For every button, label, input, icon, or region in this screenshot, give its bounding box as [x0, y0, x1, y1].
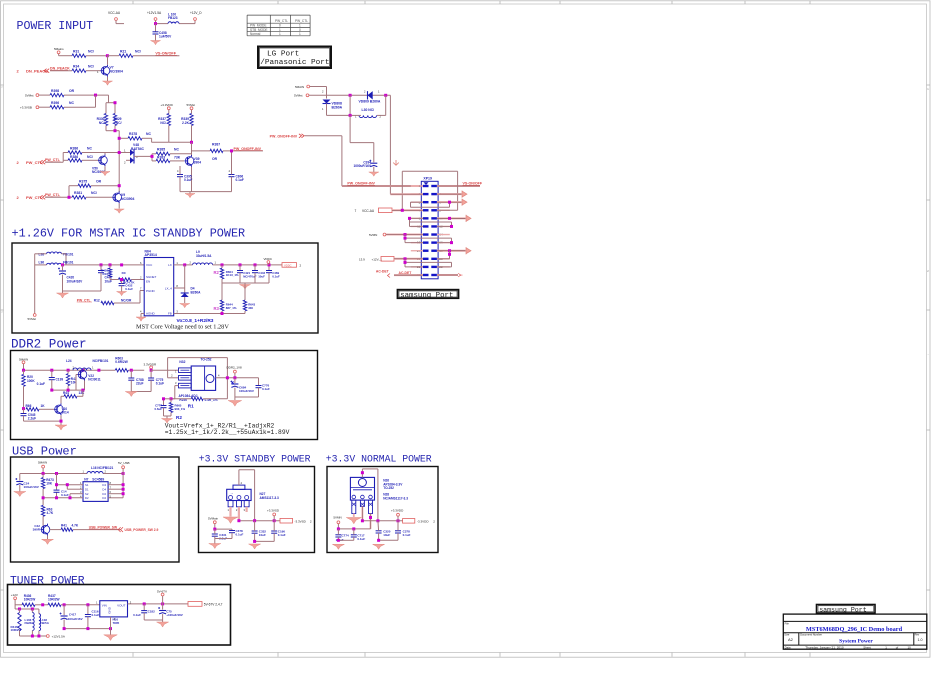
wire N26 mid leg down — [361, 506, 363, 520]
svg-text:10uF: 10uF — [259, 533, 266, 537]
junction R386 bus — [118, 151, 121, 154]
junction pin9 stub — [408, 217, 411, 220]
wire FB node — [174, 313, 245, 315]
junction V10 emitter — [60, 420, 63, 423]
svg-text:NC/AMS1117-3.3: NC/AMS1117-3.3 — [383, 496, 408, 500]
resistor R20 100K (vertical) — [23, 370, 25, 374]
junction +12V rail — [154, 22, 157, 25]
svg-text:0.1uF: 0.1uF — [357, 537, 365, 541]
svg-text:PW_CTL: PW_CTL — [77, 298, 91, 302]
junction pair bottom — [114, 129, 117, 132]
svg-text:DN_PEACK: DN_PEACK — [50, 67, 70, 71]
capacitor C775 0.1uF — [150, 370, 152, 378]
svg-text:R31: R31 — [73, 49, 79, 53]
box USB section — [11, 457, 180, 562]
svg-text:R10: R10 — [102, 272, 108, 276]
svg-text:FB: FB — [168, 312, 172, 316]
transistor V42 390R — [41, 525, 50, 534]
samsung Port box (connector) — [398, 290, 459, 299]
svg-text:Normal: Normal — [250, 32, 261, 36]
svg-text:AC-DET: AC-DET — [376, 269, 390, 273]
svg-text:LX: LX — [168, 263, 172, 267]
diode VD809 B260A — [368, 91, 373, 99]
resistor R473 10K (vertical) — [42, 474, 44, 478]
svg-text:Size: Size — [784, 633, 790, 637]
wire V10 collector to R44 — [60, 396, 62, 403]
svg-text:2.2K: 2.2K — [182, 121, 190, 125]
ground of C684 — [228, 401, 242, 407]
svg-text:R34: R34 — [73, 64, 79, 68]
ground of V9 — [114, 209, 124, 213]
capacitor C24 100uF/16V — [19, 474, 21, 481]
svg-text:5V-6TV: 5V-6TV — [157, 589, 167, 593]
wire stby output rail — [239, 520, 280, 522]
svg-text:→: → — [230, 491, 234, 495]
svg-text:MST Core Voltage need to set 1: MST Core Voltage need to set 1.28V — [136, 324, 229, 331]
junction R20/R66 — [22, 407, 25, 410]
svg-text:Sheet: Sheet — [863, 645, 871, 649]
capacitor C378 0.1uF (stby) — [229, 530, 235, 532]
svg-text:B260A: B260A — [191, 290, 202, 294]
op-amp U64 AP3514 regulator IC — [144, 258, 174, 316]
junction sub-rail — [18, 608, 21, 611]
svg-text:DDR2_1V8: DDR2_1V8 — [227, 365, 243, 369]
N32 pin boxes — [179, 368, 192, 373]
capacitor C332 10uF — [252, 530, 258, 532]
capacitor C777 0.6uF — [164, 398, 172, 400]
wire cap top stub — [179, 166, 181, 169]
capacitor C684 100uF/16V — [234, 378, 236, 383]
ground rail caps — [63, 290, 102, 292]
box DDR2 section — [11, 351, 318, 440]
svg-text:0.6uF: 0.6uF — [154, 407, 162, 411]
resistor R43 10K (vertical) — [67, 370, 69, 373]
wire N27 legs down — [229, 507, 231, 517]
junction tuner rail — [63, 603, 66, 606]
svg-text:C182: C182 — [148, 610, 156, 614]
svg-text:R2: R2 — [176, 415, 182, 420]
title block row lines — [783, 620, 927, 622]
svg-text:5VMst: 5VMst — [28, 317, 37, 321]
junction resistor pair top — [114, 101, 117, 104]
regulator N27 AMS1117-3.3 — [233, 485, 245, 489]
svg-text:+3.3VSB: +3.3VSB — [20, 105, 32, 109]
svg-text:L30 NC/: L30 NC/ — [362, 108, 375, 112]
wire ddr2 input rail — [24, 369, 116, 371]
svg-text:10K: 10K — [46, 482, 53, 486]
transistor V22 NC/9011 — [78, 370, 87, 379]
wire N32 ADJ to divider — [175, 385, 179, 387]
wire norm input row — [338, 528, 370, 530]
wire pin5 loop — [411, 201, 423, 203]
junction LX node — [183, 263, 186, 266]
svg-text:NC/3904: NC/3904 — [110, 70, 123, 74]
svg-text:0.1uF: 0.1uF — [37, 382, 45, 386]
svg-text:TUNER POWER: TUNER POWER — [10, 576, 85, 588]
wire V22 collector/emitter — [84, 369, 86, 371]
N26 package legs — [352, 500, 356, 513]
svg-text:L24: L24 — [66, 359, 72, 363]
junction ADJ node — [170, 397, 173, 400]
svg-text:+3.3V STANDBY POWER: +3.3V STANDBY POWER — [199, 454, 311, 465]
junction V48 out — [151, 155, 154, 158]
svg-text:R66: R66 — [26, 404, 32, 408]
ground of C75 — [157, 622, 169, 627]
svg-text:+100uF/16V: +100uF/16V — [66, 617, 83, 621]
ground of C420/C440 — [57, 293, 69, 298]
junction leg3 — [369, 516, 372, 519]
wire pins 18-20 tie — [449, 251, 451, 259]
junction pin13 — [404, 233, 407, 236]
capacitor C421 NC/470uF/16V — [239, 265, 241, 270]
svg-text:0.1uF: 0.1uF — [278, 533, 286, 537]
svg-text:=1.25x_1+_1k/2.2k__+55uAx1k=1.: =1.25x_1+_1k/2.2k__+55uAx1k=1.89V — [165, 429, 290, 436]
capacitor C199 0.1uF — [51, 370, 53, 377]
svg-text:390R: 390R — [33, 528, 41, 532]
junction bottom rail — [50, 389, 53, 392]
wire 5VMst left drop — [34, 254, 36, 314]
svg-text:DN_PEACK: DN_PEACK — [26, 68, 48, 73]
box TUNER section — [8, 585, 231, 646]
svg-text:5VMN: 5VMN — [369, 233, 377, 237]
diode VD808 B260A — [323, 100, 331, 104]
capacitor C196 0.1uF — [271, 530, 277, 532]
samsung Port box (title area) — [817, 605, 876, 614]
svg-text:Rev: Rev — [915, 633, 920, 637]
junction bottom rail — [31, 635, 34, 638]
svg-text:5MAIN: 5MAIN — [295, 85, 304, 89]
svg-text:R386: R386 — [70, 146, 78, 150]
junction rail C440 — [100, 263, 103, 266]
junction DDR2_1V8 rail — [233, 376, 236, 379]
svg-text:7: 7 — [355, 209, 357, 213]
svg-text:1uF/50V: 1uF/50V — [159, 35, 172, 39]
svg-text:NC/: NC/ — [87, 155, 93, 159]
capacitor C420 100uF/16V — [62, 265, 64, 270]
svg-text:PW_ONOFF-INV: PW_ONOFF-INV — [347, 182, 375, 186]
svg-text:3.3VDDR: 3.3VDDR — [144, 362, 158, 366]
junction 5VMst-VD809 left — [349, 94, 352, 97]
junction caps bottom — [63, 627, 66, 630]
wire loop pins 19-22 — [404, 259, 406, 267]
svg-text:R21: R21 — [120, 49, 126, 53]
transistor V7 NC/3904 — [101, 66, 110, 75]
svg-text:5MAIN: 5MAIN — [38, 460, 47, 464]
svg-text:PW_CTL: PW_CTL — [45, 193, 61, 197]
svg-text:NC/: NC/ — [135, 49, 141, 53]
capacitor C75 +100uF/16V (tuner) — [162, 604, 164, 610]
capacitor C395 0.1uF — [177, 174, 183, 176]
svg-text:NC/9011: NC/9011 — [88, 378, 101, 382]
svg-text:10uF: 10uF — [383, 533, 390, 537]
wire N16 GND down — [110, 617, 112, 629]
svg-text:0.1uF: 0.1uF — [272, 275, 280, 279]
junction norm caps bottom — [337, 539, 340, 542]
capacitor C442 10uF — [254, 265, 256, 270]
port +3.3VSD off-page — [280, 518, 293, 523]
junction norm rail — [361, 519, 364, 522]
svg-text:0.1uF: 0.1uF — [262, 387, 270, 391]
svg-text:NC/: NC/ — [116, 121, 122, 125]
regulator N16 7805 — [100, 601, 128, 617]
svg-text:7805: 7805 — [113, 621, 120, 625]
svg-text:NC: NC — [87, 146, 92, 150]
wire divider bottoms — [169, 141, 192, 143]
junction N7 pins left — [55, 483, 58, 486]
wire to C394 — [349, 115, 351, 142]
svg-text:L96: L96 — [39, 260, 45, 264]
capacitor C717 0.1uF — [351, 534, 357, 536]
ground rail under V39 — [180, 191, 232, 193]
svg-text:0.1uF: 0.1uF — [61, 493, 69, 497]
svg-text:100K: 100K — [27, 379, 35, 383]
wire tuner out gnd rail — [144, 619, 162, 621]
svg-text:10: 10 — [908, 645, 912, 649]
port +3.3VDD off-page — [403, 519, 415, 524]
svg-text:VS-ON/OFF: VS-ON/OFF — [463, 182, 483, 186]
svg-text:10R/2W: 10R/2W — [24, 598, 36, 602]
mode table — [246, 15, 248, 36]
port arrow pin10 — [437, 217, 466, 219]
regulator N26 AP1084-3.3 TO-252 package — [350, 477, 374, 500]
svg-text:MST6M68DQ_296_IC Demo board: MST6M68DQ_296_IC Demo board — [806, 626, 903, 633]
svg-text:BAT54C: BAT54C — [131, 147, 144, 151]
wire usb left vertical — [56, 474, 58, 490]
svg-text:NC: NC — [69, 101, 74, 105]
capacitor C545 2.2uF — [23, 409, 25, 414]
svg-text:samsung Port: samsung Port — [819, 606, 867, 613]
svg-text:NC/: NC/ — [88, 49, 94, 53]
svg-text:+12V1.5A: +12V1.5A — [147, 11, 162, 15]
svg-text:5VMst: 5VMst — [294, 94, 303, 98]
port 5V-6TV off-page — [188, 602, 202, 607]
svg-text:+12V_D: +12V_D — [190, 11, 202, 15]
svg-text:PGND: PGND — [146, 289, 156, 293]
svg-text:FB/5A: FB/5A — [40, 621, 50, 625]
svg-text:+3.3VDD: +3.3VDD — [391, 508, 404, 512]
svg-text:VCC-AU: VCC-AU — [362, 209, 375, 213]
svg-text:OR: OR — [96, 180, 102, 184]
svg-text:5V-6TV 2,4,7: 5V-6TV 2,4,7 — [204, 603, 223, 607]
svg-text:R385: R385 — [157, 148, 165, 152]
svg-text:SC4589: SC4589 — [92, 478, 104, 482]
svg-text:100uF/16V: 100uF/16V — [67, 279, 84, 283]
svg-text:NC/OR: NC/OR — [121, 298, 132, 302]
svg-text:5VMst: 5VMst — [187, 103, 196, 107]
svg-text:Thursday, January 21, 2010: Thursday, January 21, 2010 — [805, 645, 844, 649]
capacitor C182 0.1uF (tuner) — [143, 604, 145, 611]
wire LX_4 tie — [174, 287, 185, 289]
wire +12V rail — [156, 23, 169, 25]
box +3.3V standby section — [199, 467, 315, 553]
svg-text:GND: GND — [108, 606, 112, 614]
transistor V50 NC/3906 — [99, 156, 108, 165]
wire ddr2 bottom rail — [52, 389, 85, 391]
wire norm output rail — [362, 520, 402, 522]
junction C788 top — [130, 369, 133, 372]
svg-text:NC: NC — [146, 132, 151, 136]
wire V39 emitter down — [191, 167, 193, 192]
svg-text:0.1uF: 0.1uF — [236, 533, 244, 537]
port arrow pin6 — [462, 199, 467, 206]
svg-text:DDR2 Power: DDR2 Power — [11, 338, 87, 352]
svg-text:D4: D4 — [102, 487, 106, 491]
capacitor C394 1000uF/16V — [370, 162, 377, 164]
resistor R63 4.7K (vertical) — [41, 505, 44, 516]
capacitor C320 10uF — [376, 530, 382, 532]
svg-text:N7: N7 — [84, 478, 88, 482]
svg-text:AP3514: AP3514 — [145, 253, 157, 257]
svg-text:+3.3VDD: +3.3VDD — [161, 103, 174, 107]
wire rail to IC — [151, 369, 178, 371]
junction pin20 tie — [448, 253, 451, 256]
svg-text:File: File — [785, 622, 790, 626]
wire LX to inductor — [174, 264, 193, 266]
svg-text:0.1uF: 0.1uF — [403, 533, 411, 537]
svg-text:<: < — [1, 310, 3, 314]
resistor R643 330 (vertical) — [244, 285, 246, 301]
junction divider node — [190, 141, 193, 144]
wire V9 emitter — [118, 203, 120, 208]
wire norm caps bottom — [338, 539, 353, 541]
svg-text:EN: EN — [146, 279, 150, 283]
svg-text:4.7K: 4.7K — [72, 524, 79, 528]
junction pin13 loop — [404, 237, 407, 240]
port arrow pin4 — [437, 193, 462, 195]
svg-text:0.6R/2W: 0.6R/2W — [115, 360, 127, 364]
box +3.3V normal section — [327, 467, 438, 553]
power flag arrow on rail — [393, 160, 399, 165]
svg-text:33uH/1.5A: 33uH/1.5A — [196, 254, 212, 258]
title block column lines — [798, 633, 800, 645]
capacitor C458 1uF/50V — [155, 24, 157, 32]
wire V7 emitter — [107, 77, 109, 81]
junction output C469 — [268, 263, 271, 266]
junction L30 left — [349, 114, 352, 117]
ground of C332 — [249, 544, 261, 549]
svg-text:PW_CTL: PW_CTL — [295, 19, 308, 23]
resistor R337 NC/ (vertical) — [167, 114, 170, 126]
svg-text:PW_CTL: PW_CTL — [45, 158, 61, 162]
ground of D4 — [180, 304, 190, 308]
svg-text:+3.3VSD: +3.3VSD — [267, 509, 280, 513]
capacitor C469 0.1uF — [268, 265, 270, 270]
svg-text:-3.3VDD: -3.3VDD — [417, 519, 429, 523]
transistor V9 NC/3904 — [113, 193, 122, 202]
svg-text:samsung Port: samsung Port — [400, 292, 453, 300]
svg-text:R387: R387 — [212, 143, 220, 147]
svg-text:FB/101: FB/101 — [63, 252, 74, 256]
svg-text:NC: NC — [174, 148, 179, 152]
wire V7 collector to node — [107, 56, 109, 65]
capacitor C776 0.1uF — [258, 378, 260, 386]
ground of V7 — [103, 81, 113, 85]
resistor R339 2.2K (vertical) — [190, 114, 193, 126]
capacitor C432 0.1uF — [119, 283, 125, 285]
wire V39 collector to divider — [191, 142, 193, 155]
svg-text:100uF/16V: 100uF/16V — [24, 485, 40, 489]
connector XP19 pin dashes — [423, 185, 429, 187]
wire V48 output — [133, 153, 135, 161]
junction C320 bottom — [377, 539, 380, 542]
capacitor C440 10uF — [100, 265, 102, 270]
svg-text:330: 330 — [248, 306, 253, 310]
svg-text:5VMN: 5VMN — [333, 516, 341, 520]
resistor R665 903_1% (vertical) — [170, 399, 172, 403]
svg-text:-3.3VSD: -3.3VSD — [295, 519, 307, 523]
capacitor C116 0.1uF — [87, 605, 89, 615]
svg-text:AMS1117-3.3: AMS1117-3.3 — [260, 496, 280, 500]
port USB_POWER_SW — [118, 527, 123, 532]
svg-text:NC/: NC/ — [91, 191, 97, 195]
svg-text:FB/101: FB/101 — [63, 260, 74, 264]
junction pin10 stub — [448, 217, 451, 220]
svg-text:+100uF/16V: +100uF/16V — [166, 613, 183, 617]
svg-text:1K13_1%: 1K13_1% — [226, 273, 239, 277]
ground of C320 — [373, 544, 385, 549]
svg-text:4.7K: 4.7K — [47, 511, 54, 515]
wire VD809/L30 branch — [349, 95, 351, 115]
port arrow pin18 — [437, 250, 466, 252]
ground of C774 — [332, 544, 344, 549]
title block outer box — [783, 614, 927, 649]
junction 3.3VDDR rail — [150, 369, 153, 372]
svg-text:of: of — [896, 645, 899, 649]
junction pin19 loop — [404, 261, 407, 264]
svg-text:LG Port: LG Port — [267, 50, 299, 58]
svg-text:5VMst: 5VMst — [25, 93, 34, 97]
resistor R329 NC/ (vertical) — [113, 114, 116, 126]
wire caps bottom rail — [64, 628, 110, 630]
svg-text:C199: C199 — [56, 378, 64, 382]
transistor V10 9014 — [55, 405, 64, 414]
wire VS-ON/OFF from pin2 — [437, 185, 480, 187]
svg-text:D1: D1 — [85, 487, 89, 491]
svg-text:0.1uF: 0.1uF — [133, 613, 141, 617]
svg-text:USB_POWER_SW: USB_POWER_SW — [89, 525, 118, 529]
svg-text:D4: D4 — [102, 483, 106, 487]
svg-text:13.9: 13.9 — [359, 257, 365, 261]
LG Port / Panasonic Port box — [258, 47, 331, 69]
resistor R644 887_1% (vertical) — [221, 283, 223, 300]
svg-text:73K: 73K — [174, 155, 181, 159]
svg-text:1: 1 — [299, 32, 301, 36]
junction pin18 stub — [448, 249, 451, 252]
transistor V39 3904 — [185, 157, 194, 166]
IC N7 right pin wires — [108, 484, 123, 486]
wire node to resistor pair — [108, 95, 110, 103]
svg-text:PW_CTL: PW_CTL — [275, 19, 288, 23]
svg-text:5Mains: 5Mains — [54, 47, 64, 51]
junction R387 node — [230, 149, 233, 152]
junction output C421 — [239, 263, 242, 266]
wire VCC-AU loop box — [402, 170, 457, 172]
svg-text:AGND: AGND — [146, 312, 156, 316]
wire N26 loop to output — [361, 469, 363, 478]
svg-text:R381: R381 — [74, 191, 82, 195]
svg-text:VCC: VCC — [146, 263, 153, 267]
ground of N16 — [104, 635, 118, 641]
svg-text:R378: R378 — [129, 132, 137, 136]
junction rail C420 — [61, 263, 64, 266]
svg-text:VDDC: VDDC — [284, 263, 292, 267]
svg-text:3904: 3904 — [194, 161, 202, 165]
svg-text:TO-252: TO-252 — [200, 357, 211, 361]
wire R396 up to node — [95, 95, 97, 107]
svg-text:NC/: NC/ — [99, 121, 105, 125]
junction FB R644 — [221, 312, 224, 315]
svg-text:L98: L98 — [39, 252, 45, 256]
